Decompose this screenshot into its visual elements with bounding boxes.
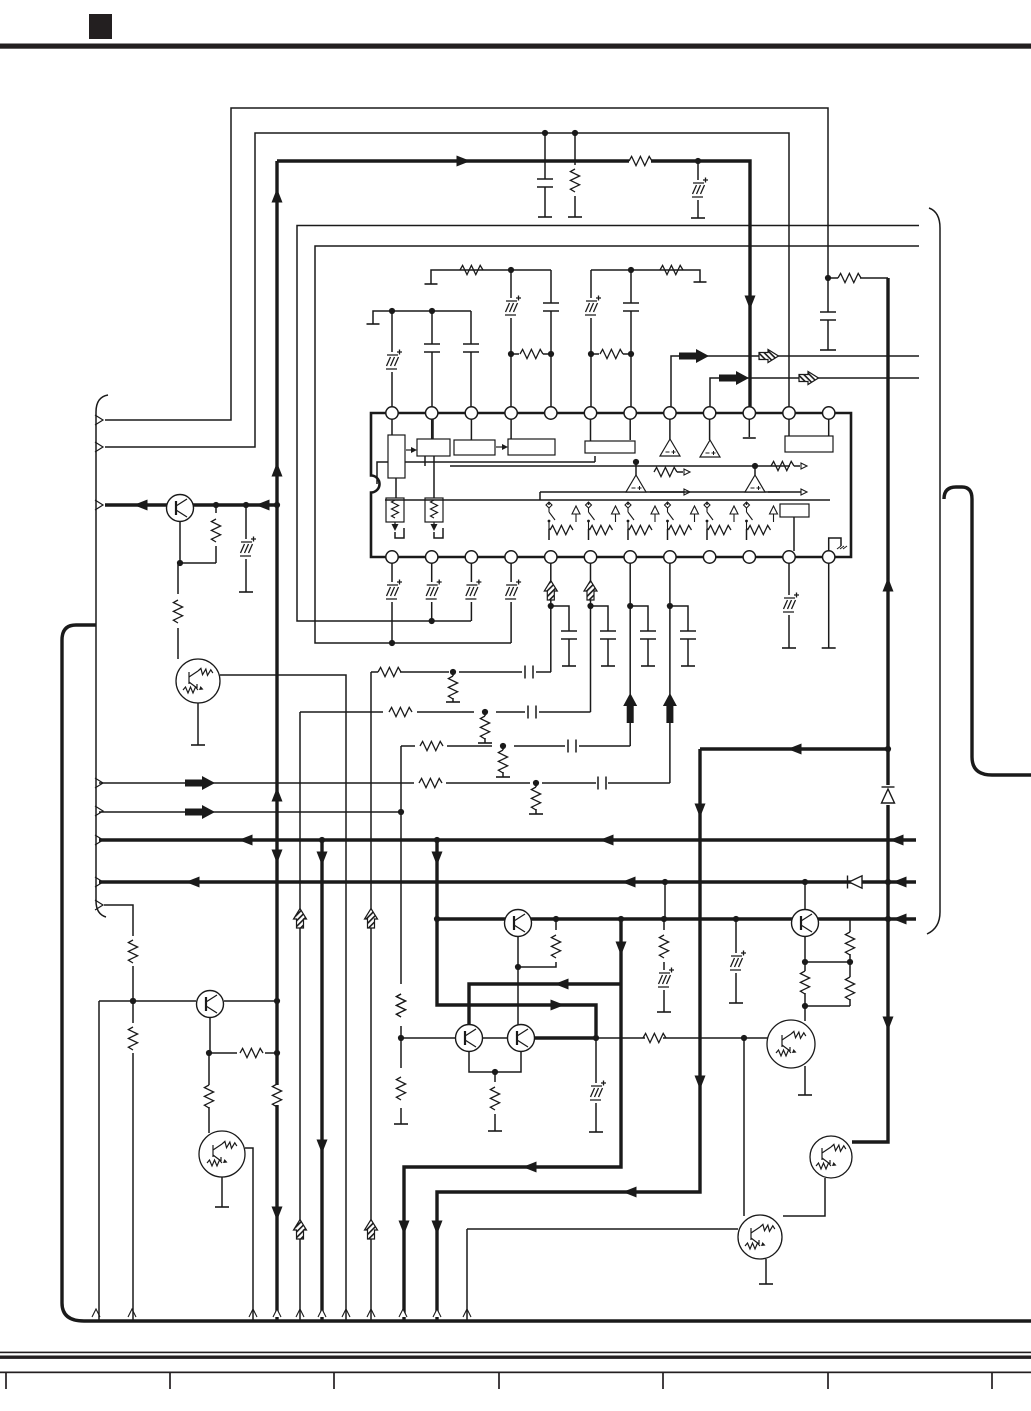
wire loop 2 (to pin11 top) [105, 133, 789, 447]
junction x591 y354 [588, 351, 594, 357]
bottom rule thin [0, 1352, 1031, 1354]
junction x664 y919 [661, 916, 667, 922]
transistor Q12 darlington [810, 1136, 852, 1178]
Q13 emitter lead [765, 1259, 767, 1284]
arrow x888 up y583 [883, 578, 894, 592]
wire bus y246 [315, 246, 919, 643]
bus joint mark x=437 [433, 1309, 441, 1317]
IC hollow arrow 5 [730, 506, 738, 522]
bus joint mark x=132 [128, 1309, 136, 1317]
hatched arrow x300 b [294, 1220, 307, 1240]
pin6 top lead + elec [590, 270, 592, 407]
thick bus y919 [437, 917, 916, 920]
arrow x277 up y468 [272, 463, 283, 477]
bus joint mark x=96 [92, 1309, 100, 1317]
junction x551 y606 [548, 603, 554, 609]
arrow y840 left a [239, 835, 253, 846]
connector chevron y=882 [95, 877, 103, 887]
wire x828 cap branch [827, 272, 829, 350]
coupling resistor y354 left [511, 353, 551, 355]
junction x591 y606 [587, 603, 593, 609]
bold arrow y356 [679, 349, 709, 363]
transistor Q8 [508, 1025, 535, 1052]
junction x575 y133 [572, 130, 578, 136]
junction x432 y311 [429, 308, 435, 314]
junction x665 y882 [662, 879, 668, 885]
hatched arrow x300 a [294, 909, 307, 929]
IC amp A4 [745, 475, 765, 492]
junction x437 y840 [434, 837, 440, 843]
IC pin 3 top [465, 407, 477, 419]
bus joint mark x=403 [399, 1309, 407, 1317]
IC hollow arrow 3 [651, 506, 659, 522]
IC pin 18 bottom [584, 551, 596, 563]
bold arrow y783 [185, 776, 215, 790]
arrow y840 left b [600, 835, 614, 846]
IC pin 19 bottom [624, 551, 636, 563]
arrow x621 down y946 [616, 942, 627, 956]
IC pin 21 bottom [703, 551, 715, 563]
arrow y882 left a [186, 877, 200, 888]
pin14 lead + elec [431, 563, 433, 621]
junction x277 y1001 [274, 998, 280, 1004]
ground bar x698 [691, 217, 705, 219]
thick wire y505 [105, 503, 277, 506]
junction x631 y354 [628, 351, 634, 357]
IC switch resistor 1 [550, 525, 573, 534]
transistor Q7 [456, 1025, 483, 1052]
connector chevron y=505 [95, 500, 103, 510]
IC block 1 [388, 435, 405, 478]
transistor Q5 y1001 [197, 991, 224, 1018]
line C left leg x401 [99, 746, 401, 1124]
junction x437 y919 [434, 916, 440, 922]
IC amp A3 [626, 475, 646, 492]
hatched arrow x371 b [365, 1220, 378, 1240]
IC pin 23 bottom [783, 551, 795, 563]
IC pin 6 top [584, 407, 596, 419]
ground bar x789 [782, 647, 796, 649]
connector chevron y=905 [95, 900, 103, 910]
thick wire x621 [404, 919, 621, 1320]
junction x453 y672 [450, 669, 456, 675]
IC switch S1 [546, 502, 555, 529]
elec x596 chain [595, 1038, 597, 1132]
transistor Q4 darlington [176, 659, 220, 703]
ground bar x222 [215, 1206, 229, 1208]
arrow y840 left c [890, 835, 904, 846]
connector chevron y=420 [95, 415, 103, 425]
pin17 chain x551 [550, 563, 552, 672]
IC current source Q1 [386, 498, 404, 531]
resistor R x850 y278 [828, 277, 888, 279]
IC pin11 wire [788, 419, 790, 436]
x401 resistor upper [396, 994, 405, 1017]
connector chevron y=783 [95, 778, 103, 788]
junction x744 y1038 [741, 1035, 747, 1041]
IC bus line c [540, 492, 780, 500]
junction x401 y812 [398, 809, 404, 815]
IC bus line d [385, 499, 830, 501]
IC hollow arrow 1 [572, 506, 580, 522]
IC amp A1 [660, 439, 680, 456]
IC pin 13 bottom [386, 551, 398, 563]
connector chevron y=447 [95, 442, 103, 452]
junction x631 y606 [627, 603, 633, 609]
hatched arrow x371 a [365, 909, 378, 929]
pin18 chain x591 [590, 563, 592, 712]
IC switch S2 [586, 502, 595, 529]
bold arrow x631 up [623, 693, 637, 723]
arrow x277 down y858 [272, 850, 283, 864]
IC pin 5 top [545, 407, 557, 419]
arrow y505 left a [134, 500, 148, 511]
transistor Q9 on bus [505, 910, 532, 937]
line A y672 [371, 672, 551, 1320]
junction x888 y919 [885, 916, 891, 922]
x664 chain [664, 882, 665, 1012]
footer tick 1 [5, 1373, 7, 1389]
cap pair 4 [670, 606, 688, 666]
IC pin12 wire [828, 419, 830, 436]
IC A4 out arrow2 [801, 489, 807, 495]
bus joint mark x=253 [249, 1309, 257, 1317]
resistor RB [389, 707, 412, 716]
arrow x888 down y1025 [883, 1017, 894, 1031]
arrow y1167 left [523, 1162, 537, 1173]
IC hollow arrow 2 [612, 506, 620, 522]
IC switch resistor 2 [590, 525, 613, 534]
thick wire x437 upper [437, 840, 596, 1038]
resistor x850 mid [845, 977, 854, 1000]
resistor x805 mid [800, 971, 809, 994]
IC A3 out resistor [654, 467, 677, 476]
right parenthesis bracket [927, 208, 940, 934]
arrow x277 down y1215 [272, 1207, 283, 1221]
junction x485 y712 [482, 709, 488, 715]
IC pin 24 bottom [823, 551, 835, 563]
junction x888 y882 [885, 879, 891, 885]
transistor Q3 on y505 [167, 495, 194, 522]
IC pin6 link [590, 419, 592, 441]
arrow x322 down y858 [317, 852, 328, 866]
junction x322 y840 [319, 837, 325, 843]
transistor Q10 on bus [792, 910, 819, 937]
bus joint mark x=346 [342, 1309, 350, 1317]
RA sub resistor [452, 672, 454, 702]
IC bus line b [425, 456, 790, 466]
wire bus y225 [297, 226, 919, 622]
IC A4 feed [754, 466, 756, 475]
resistor x850 top [845, 932, 854, 955]
bold arrow x671 up [663, 693, 677, 723]
IC block 4 [508, 439, 555, 455]
arrow on y161 right [457, 156, 471, 167]
pin16 lead + elec [510, 563, 512, 643]
IC pin 7 top [624, 407, 636, 419]
resistor R y270 left [460, 265, 483, 274]
cap pair 1 [551, 606, 569, 666]
IC switch S4 [665, 502, 674, 529]
arrow x437 down y1229 [432, 1221, 443, 1235]
thick bus y840 [99, 838, 916, 841]
pin3 top lead + cap [470, 311, 472, 407]
junction x736 y919 [733, 916, 739, 922]
arrow y919 left [893, 914, 907, 925]
cap pair 2 [591, 606, 609, 666]
IC block7 lead [793, 517, 795, 551]
ground bar x664 [657, 1011, 671, 1013]
arrow y1192 left [623, 1187, 637, 1198]
IC pin 14 bottom [426, 551, 438, 563]
resistor x401 b [396, 1077, 405, 1100]
junction x277 y1053 [274, 1050, 280, 1056]
thick wire x888 [852, 278, 888, 1142]
junction x495 y1072 [492, 1069, 498, 1075]
transistor Q6 darlington [199, 1131, 245, 1177]
diode D2 on y882 [848, 876, 863, 889]
hatched arrow y356 [759, 350, 779, 363]
bold arrow y812 [185, 805, 215, 819]
IC pin7-amp link [630, 419, 709, 440]
ground bar x246 [239, 591, 253, 593]
pin5 top lead + cap [550, 270, 552, 407]
arrow x277 up y793 [272, 788, 283, 802]
arrow y984 left [555, 979, 569, 990]
ground bar x401 [394, 1123, 408, 1125]
IC A3 feed [635, 462, 637, 475]
footer tick 4 [498, 1373, 500, 1389]
IC switch S3 [625, 502, 634, 529]
IC switch resistor 4 [669, 525, 692, 534]
transistor Q11 darlington [767, 1020, 815, 1068]
Q4 collector wire y675 [220, 675, 346, 1320]
arrow y505 left b [256, 500, 270, 511]
ground bar x495 [488, 1130, 502, 1132]
IC block4 arrow [496, 446, 502, 448]
cap pair 3 [630, 606, 648, 666]
IC pin 16 bottom [505, 551, 517, 563]
ground bar x431 [425, 283, 438, 285]
IC pin 17 bottom [545, 551, 557, 563]
arrow x437 down y858 [432, 852, 443, 866]
junction x133 y1001 [130, 998, 136, 1004]
group A wire y311 [373, 311, 471, 324]
wire y1038 [401, 1037, 768, 1039]
IC switch S5 [704, 502, 713, 529]
junction x545 y133 [542, 130, 548, 136]
signal wire y378 [710, 378, 919, 407]
cap CA [525, 666, 533, 679]
wire y905 [104, 905, 133, 1320]
ground bar x736 [729, 1002, 743, 1004]
IC pin 12 top [823, 407, 835, 419]
x736 chain [735, 919, 737, 1003]
pin7 top lead + cap [630, 270, 632, 407]
page top rule [0, 44, 1031, 49]
ground bar x545 [538, 216, 552, 218]
IC pin 4 top [505, 407, 517, 419]
ground bar x575 [568, 216, 582, 218]
resistor R y270 right [660, 265, 683, 274]
resistor R-top x575 [574, 133, 576, 217]
arrow x700 down y808 [695, 804, 706, 818]
resistor x401 a [396, 994, 405, 1017]
resistor on x277 [272, 1084, 281, 1107]
IC bus line a [405, 456, 595, 462]
IC hollow arrow 4 [691, 506, 699, 522]
page top black square [89, 14, 112, 39]
group B wire y270 [431, 270, 551, 284]
IC sw bus [549, 502, 747, 505]
junction x621 y919 [618, 916, 624, 922]
Q10 feed up [804, 882, 806, 910]
junction x698 y161 [695, 158, 701, 164]
junction x277 y505 [274, 502, 280, 508]
arrow y749 left [788, 744, 802, 755]
line B y712 [300, 712, 591, 1320]
bus joint mark x=467 [463, 1309, 471, 1317]
junction x551 y354 [548, 351, 554, 357]
IC A3 out arrow2 [684, 489, 690, 495]
pin20 chain x671 [669, 563, 671, 783]
Q13 base wire y1229 [467, 1229, 738, 1320]
junction x209 y1053 [206, 1050, 212, 1056]
IC switch S6 [744, 502, 753, 529]
thick wire y984 [469, 984, 621, 1025]
junction x671 y606 [667, 603, 673, 609]
junction x850 y962 [847, 959, 853, 965]
bus joint mark x=300 [296, 1309, 304, 1317]
junction x888 y749 [885, 746, 891, 752]
IC amp A2 [700, 440, 720, 457]
IC pin 22 bottom [743, 551, 755, 563]
ground bar x700 [694, 281, 707, 283]
IC internal gnd [829, 538, 841, 551]
junction x216 y505 [213, 502, 219, 508]
RD sub resistor [535, 783, 537, 814]
IC pin10 stub bar [748, 419, 750, 437]
resistor RA [378, 667, 401, 676]
ground bar x766 [759, 1283, 773, 1285]
Q4 emitter lead [197, 703, 199, 745]
pin19 chain x631 [629, 563, 631, 746]
resistor y1053 [240, 1048, 263, 1057]
cap CB [528, 706, 536, 719]
resistor x495 [490, 1087, 499, 1110]
pin15 lead + elec [470, 563, 472, 621]
pin13 lead + elec [391, 563, 393, 643]
cap CC [568, 740, 576, 753]
junction x631 y270 [628, 267, 634, 273]
IC block 3 [454, 440, 495, 455]
arrow x322 down y1148 [317, 1140, 328, 1154]
line C y746 [401, 745, 630, 747]
pin24 lead [828, 563, 830, 648]
IC block2 arrow [406, 449, 412, 451]
hatched arrow x551 [544, 581, 557, 601]
thick vertical bus x277 [275, 161, 278, 1320]
pin2 top lead + cap [431, 311, 433, 407]
wire y1001 [99, 1001, 277, 1320]
pin23 lead + elec [788, 563, 790, 648]
resistor R x178 [173, 600, 182, 623]
IC block 7 [780, 504, 809, 517]
junction x246 y505 [243, 502, 249, 508]
elec x246 chain [245, 505, 247, 592]
junction x828 y278 [825, 275, 831, 281]
junction x556 y919 [553, 916, 559, 922]
pin4 top lead + elec [510, 270, 512, 407]
IC U1 outline [371, 413, 851, 557]
arrow x700 down y1084 [695, 1076, 706, 1090]
junction x503 y746 [500, 743, 506, 749]
R x216 chain [215, 505, 217, 563]
bold arrow y378 [719, 371, 749, 385]
junction x180 y563 [177, 560, 183, 566]
diode D1 on x888 [882, 787, 895, 803]
line D y783 [99, 782, 670, 784]
IC current source Q2 [425, 498, 443, 531]
footer tick 6 [827, 1373, 829, 1389]
junction x392 y311 [389, 308, 395, 314]
x556 resistor drop [518, 919, 556, 967]
ground bar x805b [798, 1094, 812, 1096]
group C wire y270 [591, 270, 700, 282]
transistor Q13 darlington [738, 1215, 782, 1259]
footer tick 2 [169, 1373, 171, 1389]
bottom rule thick [0, 1356, 1031, 1359]
arrow y882 left b [622, 877, 636, 888]
thick wire x322 [320, 840, 323, 1320]
IC A4 out resistor [771, 461, 794, 470]
capacitor C x828 [820, 312, 836, 320]
junction x511 y270 [508, 267, 514, 273]
coupling resistor y354 right [591, 353, 631, 355]
junction x805 y882 [802, 879, 808, 885]
ground bar x596 [589, 1131, 603, 1133]
ladder x805/x850 [805, 919, 850, 1021]
hatched arrow x591 [584, 581, 597, 601]
IC switch resistor 5 [708, 525, 731, 534]
junction x511 y354 [508, 351, 514, 357]
footer tick 5 [662, 1373, 664, 1389]
cap CD [598, 777, 606, 790]
IC src wiring [377, 419, 443, 538]
IC pin4 to block4 [510, 419, 512, 439]
Q12 emitter chain [783, 1178, 825, 1216]
junction x432 y621 [429, 618, 435, 624]
junction x518 y967 [515, 964, 521, 970]
wire loop outer (to x828) [105, 108, 828, 420]
resistor y1038 right [643, 1033, 666, 1042]
Q3 base chain [178, 522, 216, 660]
IC pin 10 top [743, 407, 755, 419]
thick left bracket + bottom bus [62, 625, 1031, 1321]
thick bus y882 [99, 880, 916, 883]
connector chevron y=811 [95, 806, 103, 816]
junction x805 y1006 [802, 1003, 808, 1009]
IC pin 2 top [426, 407, 438, 419]
arrow y882 left c [893, 877, 907, 888]
Q6 out wire [245, 1148, 253, 1320]
thick wire top y161 [277, 161, 750, 407]
hatched arrow y378 [799, 372, 819, 385]
ground bar x828 [820, 349, 836, 351]
IC switch resistor 3 [629, 525, 652, 534]
RB sub resistor [484, 712, 486, 743]
resistor x209 [204, 1085, 213, 1108]
